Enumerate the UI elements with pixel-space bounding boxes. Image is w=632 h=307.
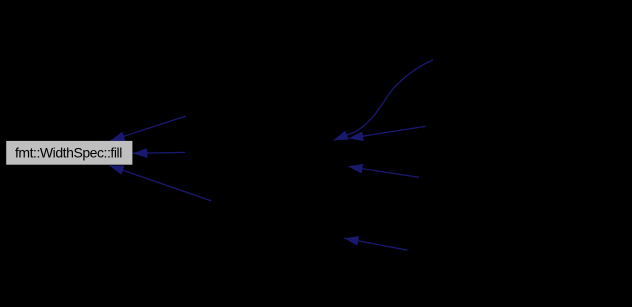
svg-text:fmt::WidthSpec::fill: fmt::WidthSpec::fill	[15, 145, 122, 161]
